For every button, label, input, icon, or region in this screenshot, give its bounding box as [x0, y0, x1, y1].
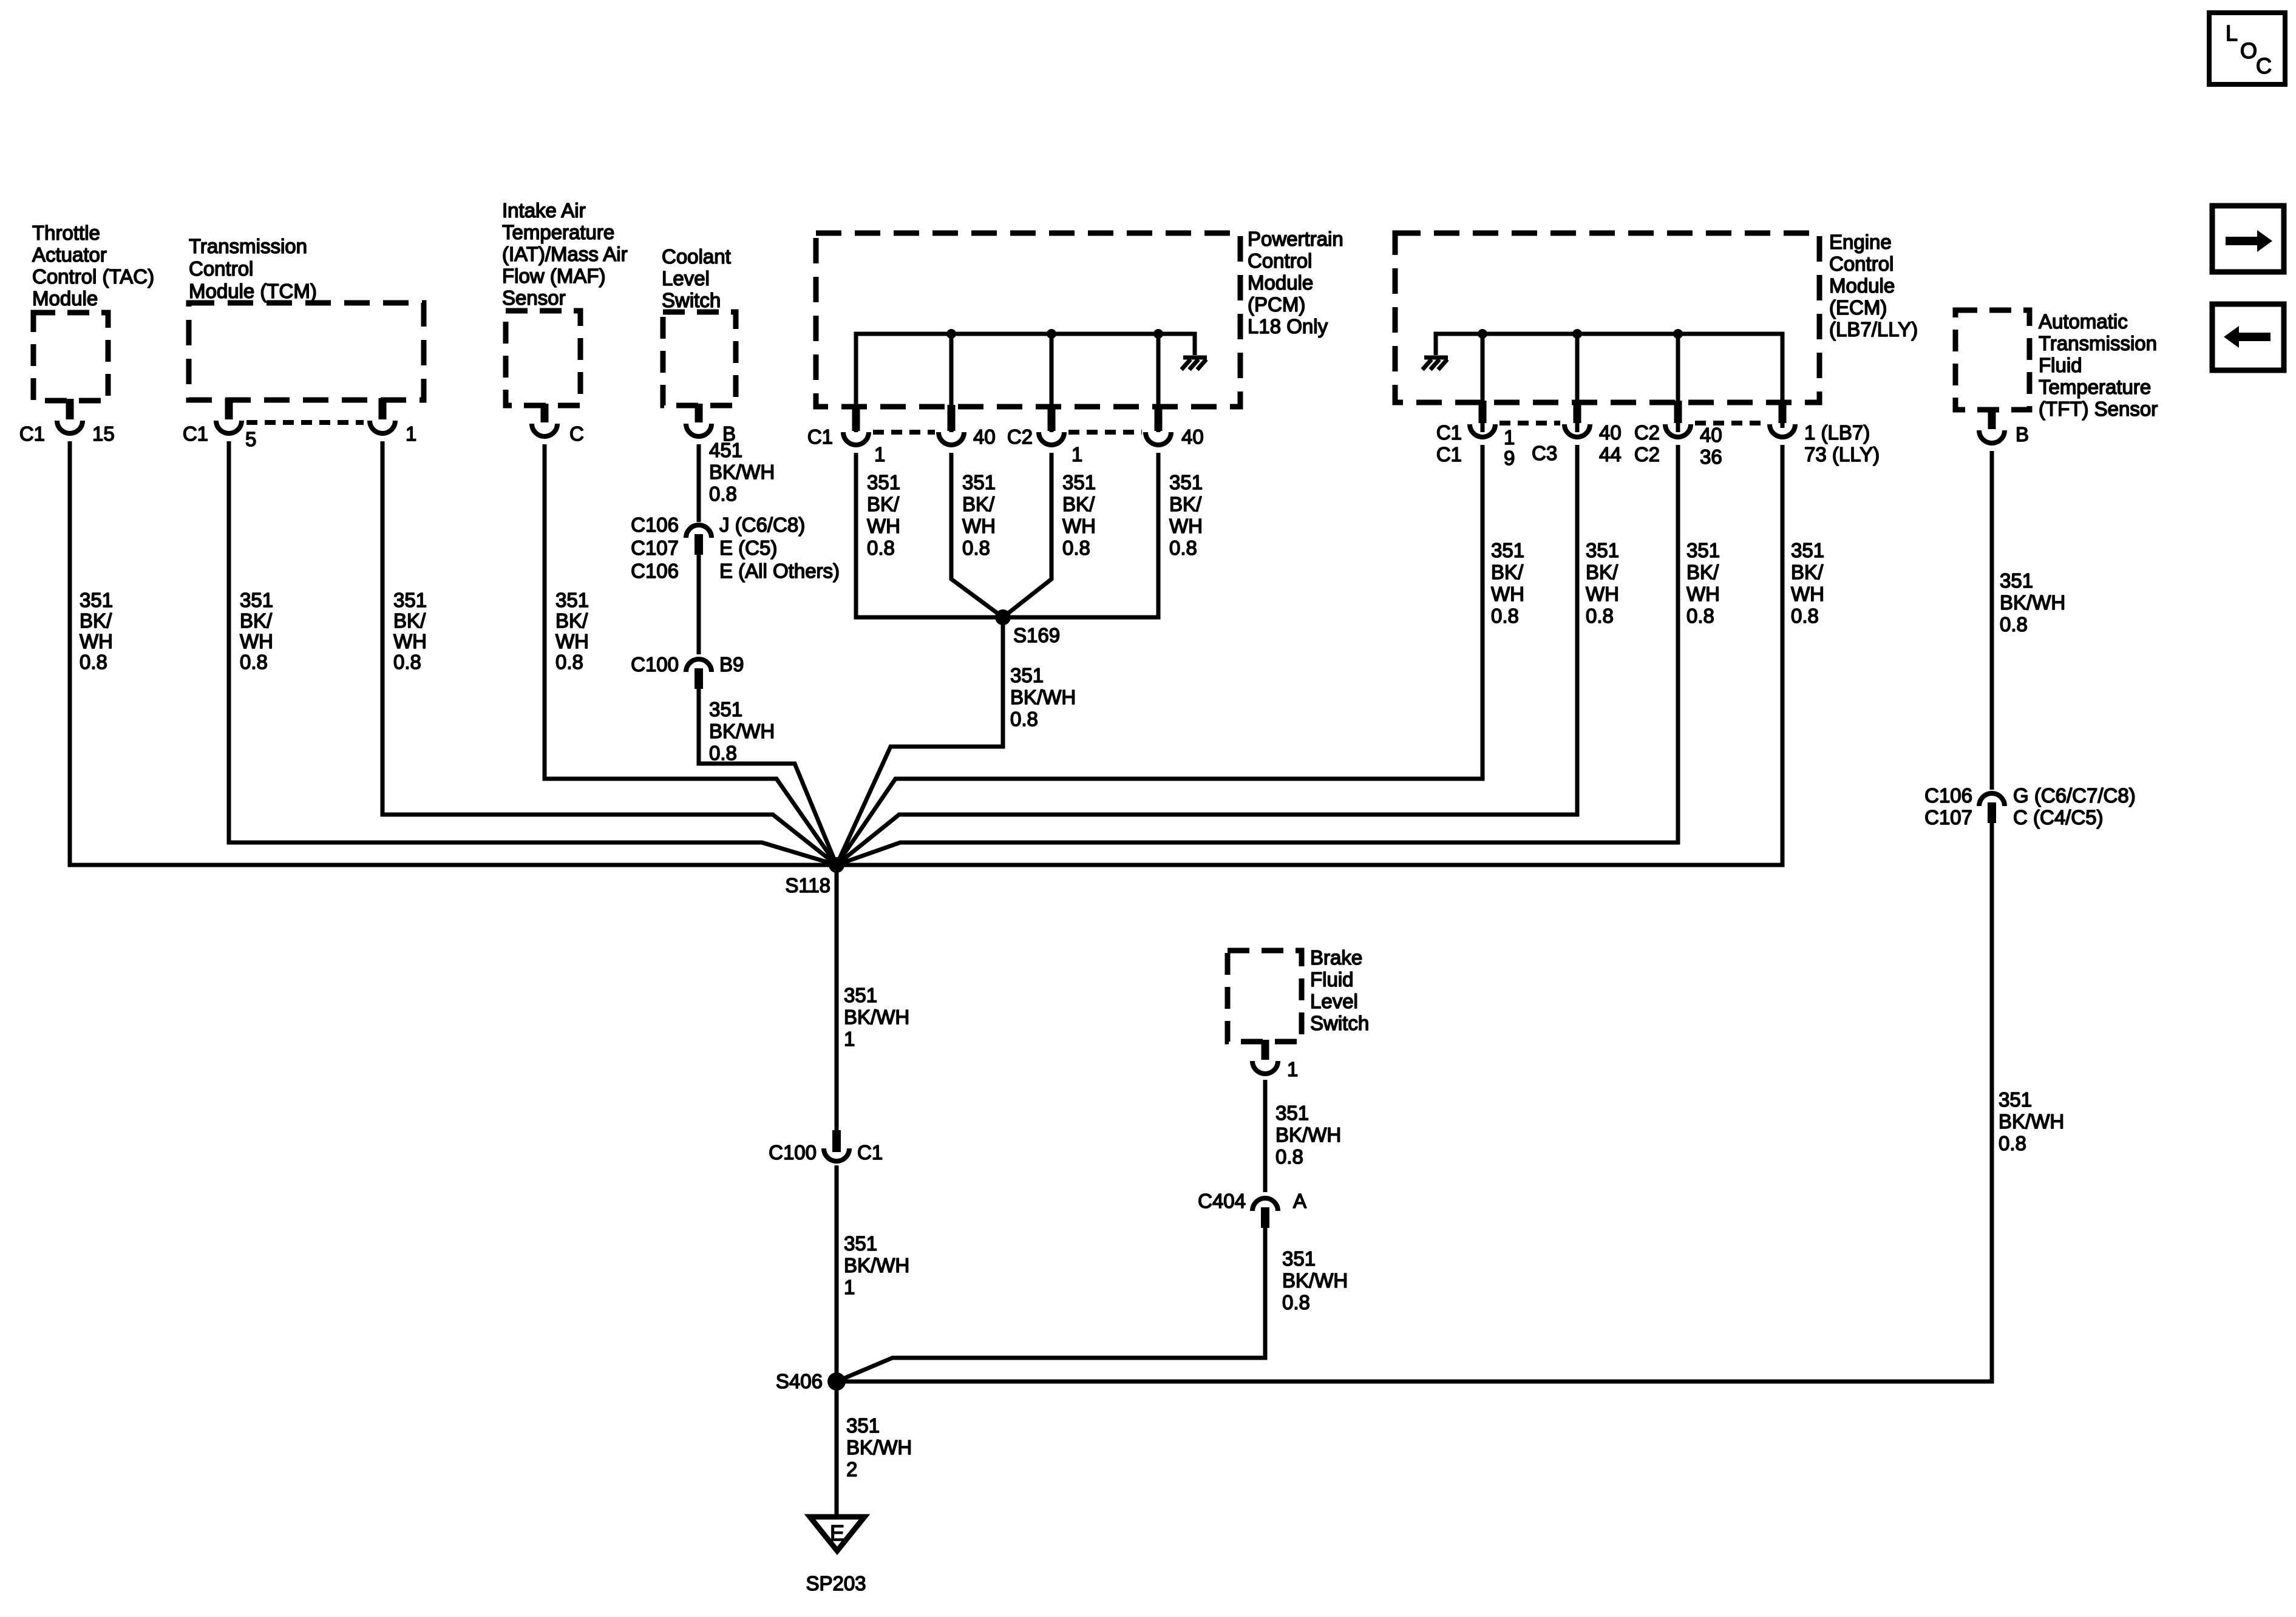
PCM pin C1-1 connector [807, 405, 886, 466]
wire ECM pin 40/44 to S118 [837, 445, 1577, 865]
wire label 351 BK/WH 0.8 (TCM pin 1) [393, 589, 427, 673]
svg-text:Control: Control [1829, 253, 1894, 275]
svg-text:5: 5 [245, 428, 256, 450]
svg-text:Flow (MAF): Flow (MAF) [502, 265, 605, 287]
svg-text:Control: Control [1248, 249, 1312, 272]
svg-text:351: 351 [1010, 664, 1044, 686]
Coolant pin B connector [686, 404, 736, 445]
wire TAC pin 15 to S118 [70, 441, 837, 865]
svg-text:40: 40 [1181, 425, 1204, 448]
ground SP203 (E triangle) [806, 1517, 866, 1595]
PCM internal wire pin 40 C2 [1156, 334, 1161, 432]
svg-text:BK/: BK/ [1169, 493, 1202, 515]
wire label 351 BK/WH 1 (S118 to C100) [844, 984, 909, 1050]
wire PCM pin C2-40 to S169 [1003, 453, 1158, 617]
ECM pin 1(LB7)/73(LLY) connector [1770, 401, 1880, 466]
svg-text:Coolant: Coolant [662, 245, 731, 268]
svg-text:0.8: 0.8 [1686, 605, 1714, 627]
svg-text:C2: C2 [1634, 443, 1660, 466]
svg-text:351: 351 [555, 589, 589, 611]
ECM internal wire pin C1 [1481, 334, 1485, 432]
junction dot ECM bus 2 [1572, 329, 1582, 339]
chassis ground inside ECM [1422, 358, 1448, 370]
svg-text:Powertrain: Powertrain [1248, 228, 1343, 250]
PCM label [1248, 228, 1343, 337]
wire S169 to S118 [837, 617, 1003, 865]
svg-text:C100: C100 [769, 1141, 817, 1164]
svg-text:36: 36 [1700, 446, 1722, 468]
Transmission Control Module (TCM) box [189, 235, 424, 400]
svg-text:L18 Only: L18 Only [1248, 315, 1328, 337]
svg-text:1: 1 [874, 443, 885, 466]
wire IAT/MAF pin C to S118 [545, 444, 837, 865]
svg-text:1: 1 [406, 422, 416, 445]
svg-text:0.8: 0.8 [1169, 537, 1197, 559]
svg-text:C2: C2 [1634, 421, 1660, 444]
ECM pin 40/44 connector [1564, 401, 1622, 466]
svg-text:C1: C1 [1436, 421, 1462, 444]
svg-text:BK/WH: BK/WH [709, 720, 775, 742]
svg-text:Transmission: Transmission [2039, 332, 2157, 354]
svg-text:0.8: 0.8 [1491, 605, 1519, 627]
Powertrain Control Module (PCM) box [816, 233, 1240, 407]
svg-text:15: 15 [92, 422, 115, 445]
svg-text:Control: Control [189, 257, 253, 280]
ECM internal wire pin 40/44 [1575, 334, 1580, 432]
svg-text:WH: WH [1586, 583, 1619, 605]
svg-text:0.8: 0.8 [2000, 613, 2028, 636]
svg-text:351: 351 [867, 471, 900, 493]
svg-text:BK/: BK/ [1686, 561, 1719, 583]
svg-text:C1: C1 [19, 422, 45, 445]
wire label 351 BK/WH 0.8 (ECM 40/44) [1586, 539, 1619, 627]
svg-text:351: 351 [393, 589, 427, 611]
svg-text:C1: C1 [183, 422, 208, 445]
wire ECM pin C1 to S118 [837, 445, 1483, 865]
svg-text:Fluid: Fluid [2039, 354, 2082, 376]
svg-text:BK/: BK/ [867, 493, 900, 515]
wire label 351 BK/WH 0.8 (brake lower) [1282, 1247, 1348, 1314]
svg-text:351: 351 [2000, 569, 2033, 592]
Intake Air Temperature (IAT)/Mass Air Flow (MAF) Sensor box [502, 199, 628, 405]
svg-text:C100: C100 [631, 653, 679, 676]
connector C404 A [1198, 1190, 1306, 1228]
svg-text:Temperature: Temperature [502, 221, 614, 243]
svg-text:351: 351 [1282, 1247, 1316, 1270]
svg-text:0.8: 0.8 [393, 651, 421, 673]
svg-text:J (C6/C8): J (C6/C8) [719, 514, 805, 536]
svg-text:0.8: 0.8 [709, 483, 737, 505]
junction dot PCM bus 2 [1047, 329, 1056, 339]
svg-text:1 (LB7): 1 (LB7) [1804, 421, 1870, 444]
svg-text:0.8: 0.8 [1275, 1145, 1303, 1168]
dashed connector link PCM C1 [873, 430, 935, 435]
svg-text:BK/: BK/ [962, 493, 995, 515]
svg-text:C106: C106 [631, 514, 679, 536]
svg-text:Sensor: Sensor [502, 286, 566, 309]
wire C404 A to S406 [837, 1227, 1265, 1381]
svg-text:351: 351 [1062, 471, 1096, 493]
svg-text:BK/: BK/ [555, 609, 588, 632]
svg-text:351: 351 [844, 984, 877, 1006]
svg-text:BK/: BK/ [80, 609, 112, 632]
splice S118 [785, 857, 844, 897]
TFT label [2039, 310, 2158, 420]
svg-text:0.8: 0.8 [1010, 708, 1038, 730]
svg-text:A: A [1293, 1190, 1306, 1212]
dashed connector link PCM C2 [1068, 430, 1142, 435]
svg-text:BK/: BK/ [1586, 561, 1618, 583]
svg-text:40: 40 [973, 425, 996, 448]
PCM internal wire pin 1 C2 [1050, 334, 1054, 432]
svg-text:Level: Level [662, 267, 710, 290]
wire PCM pin C2-1 to S169 [1003, 453, 1051, 617]
svg-text:0.8: 0.8 [80, 651, 107, 673]
svg-text:1: 1 [844, 1276, 855, 1298]
svg-text:0.8: 0.8 [1999, 1132, 2026, 1154]
svg-text:Intake Air: Intake Air [502, 199, 586, 222]
svg-text:351: 351 [962, 471, 996, 493]
svg-text:0.8: 0.8 [240, 651, 268, 673]
svg-text:C: C [569, 422, 584, 445]
connector C100 C1 [769, 1130, 883, 1164]
svg-text:0.8: 0.8 [1791, 605, 1819, 627]
junction dot PCM bus 1 [946, 329, 956, 339]
svg-text:BK/WH: BK/WH [709, 461, 775, 483]
wire label 351 BK/WH 0.8 (ECM C1) [1491, 539, 1524, 627]
svg-text:451: 451 [709, 439, 742, 461]
svg-text:351: 351 [80, 589, 113, 611]
svg-text:2: 2 [846, 1458, 857, 1480]
svg-text:9: 9 [1504, 447, 1515, 469]
svg-text:S118: S118 [785, 874, 830, 897]
right arrow indicator [2212, 206, 2284, 272]
wire PCM pin C1-40 to S169 [951, 453, 1003, 617]
wire label 351 BK/WH 0.8 (TFT upper) [2000, 569, 2065, 636]
svg-text:0.8: 0.8 [867, 537, 895, 559]
svg-text:(TFT) Sensor: (TFT) Sensor [2039, 398, 2158, 420]
svg-text:1: 1 [1072, 443, 1082, 466]
wire label 351 BK/WH 0.8 (brake upper) [1275, 1102, 1341, 1168]
svg-text:WH: WH [867, 515, 900, 537]
svg-text:351: 351 [1275, 1102, 1309, 1124]
Throttle Actuator Control (TAC) Module box [32, 222, 154, 401]
wire C106 to C100 [697, 555, 701, 654]
svg-text:SP203: SP203 [806, 1572, 866, 1595]
dashed connector link ECM C2 [1695, 421, 1765, 425]
svg-text:BK/: BK/ [393, 609, 426, 632]
ECM internal ground bus wire [1436, 334, 1782, 428]
svg-text:Module (TCM): Module (TCM) [189, 280, 317, 302]
svg-text:C1: C1 [807, 425, 833, 448]
svg-text:Throttle: Throttle [32, 222, 100, 244]
svg-text:Transmission: Transmission [189, 235, 307, 257]
svg-text:BK/WH: BK/WH [846, 1436, 912, 1459]
svg-text:C106: C106 [631, 560, 679, 582]
svg-text:Engine: Engine [1829, 231, 1892, 253]
svg-text:BK/WH: BK/WH [1999, 1110, 2064, 1133]
svg-text:BK/WH: BK/WH [2000, 591, 2065, 614]
TCM pin C1-5 connector [183, 398, 257, 450]
ECM label [1829, 231, 1918, 341]
svg-text:BK/WH: BK/WH [844, 1254, 909, 1276]
svg-text:Automatic: Automatic [2039, 310, 2128, 333]
svg-text:73 (LLY): 73 (LLY) [1804, 443, 1880, 466]
svg-text:0.8: 0.8 [962, 537, 990, 559]
TFT pin B connector [1979, 408, 2029, 446]
svg-text:(ECM): (ECM) [1829, 296, 1887, 319]
svg-text:G (C6/C7/C8): G (C6/C7/C8) [2013, 784, 2136, 807]
svg-text:E (All Others): E (All Others) [719, 560, 840, 582]
svg-text:351: 351 [844, 1232, 877, 1255]
svg-text:BK/: BK/ [240, 609, 273, 632]
connector C106/C107 (G / C) [1924, 784, 2136, 829]
connector C100 B9 [631, 653, 744, 689]
svg-text:O: O [2240, 38, 2257, 63]
svg-text:BK/: BK/ [1062, 493, 1095, 515]
wire S406 to SP203 [835, 1381, 839, 1515]
svg-text:44: 44 [1599, 443, 1622, 466]
svg-text:0.8: 0.8 [1586, 605, 1614, 627]
TAC pin C1-15 connector [19, 399, 115, 445]
svg-text:WH: WH [962, 515, 996, 537]
wire S118 to C100 [835, 865, 839, 1130]
svg-text:351: 351 [1686, 539, 1720, 561]
svg-text:L: L [2226, 21, 2238, 46]
svg-text:WH: WH [1791, 583, 1824, 605]
svg-text:0.8: 0.8 [1282, 1291, 1310, 1314]
svg-text:WH: WH [1491, 583, 1524, 605]
svg-text:WH: WH [1062, 515, 1096, 537]
svg-text:1: 1 [844, 1028, 855, 1050]
svg-text:C106: C106 [1924, 784, 1972, 807]
svg-text:0.8: 0.8 [709, 742, 737, 764]
chassis ground inside PCM [1181, 358, 1207, 370]
svg-text:WH: WH [1686, 583, 1720, 605]
junction dot ECM bus 1 [1478, 329, 1487, 339]
PCM internal wire pin 40 C1 [949, 334, 954, 432]
wire label 351 BK/WH 0.8 (ECM 40/36) [1686, 539, 1720, 627]
IAT/MAF pin C connector [532, 404, 584, 445]
Brake Fluid Level Switch label [1310, 946, 1369, 1034]
dashed connector link ECM C1 [1500, 421, 1560, 425]
wire label 451 BK/WH 0.8 [709, 439, 775, 505]
wire brake pin 1 to C404 [1263, 1080, 1268, 1192]
svg-text:Module: Module [32, 287, 98, 310]
PCM pin C2-40 connector [1146, 405, 1204, 448]
svg-text:351: 351 [1491, 539, 1524, 561]
wire TCM pin 5 to S118 [229, 441, 837, 865]
svg-text:C (C4/C5): C (C4/C5) [2013, 806, 2104, 829]
svg-text:Fluid: Fluid [1310, 968, 1354, 991]
ECM pin C1-1/9 connector [1436, 401, 1557, 469]
svg-text:(LB7/LLY): (LB7/LLY) [1829, 318, 1918, 341]
svg-text:BK/WH: BK/WH [1275, 1124, 1341, 1146]
Brake Fluid Level Switch box [1228, 951, 1302, 1042]
svg-text:Switch: Switch [662, 289, 721, 311]
svg-text:S406: S406 [776, 1370, 823, 1392]
wire label 351 BK/WH 0.8 (S169 to S118) [1010, 664, 1076, 730]
svg-text:Level: Level [1310, 990, 1358, 1012]
PCM pin C2-1 connector [1007, 405, 1083, 466]
svg-text:BK/WH: BK/WH [1010, 686, 1076, 708]
svg-text:(IAT)/Mass Air: (IAT)/Mass Air [502, 243, 628, 265]
svg-text:BK/: BK/ [1491, 561, 1524, 583]
ECM pin C2 40/36 connector [1634, 401, 1722, 468]
wire label 351 BK/WH 0.8 (PCM C2-1) [1062, 471, 1096, 559]
svg-text:1: 1 [1504, 426, 1515, 449]
wire coolant pin B to C106 [697, 444, 701, 522]
svg-text:C2: C2 [1007, 425, 1033, 448]
svg-text:C3: C3 [1532, 442, 1557, 464]
svg-text:40: 40 [1700, 424, 1722, 446]
svg-text:Control (TAC): Control (TAC) [32, 265, 154, 288]
svg-text:Temperature: Temperature [2039, 376, 2151, 398]
ECM internal wire pin 40/36 [1676, 334, 1680, 432]
wire C106 G to S406 [837, 823, 1992, 1381]
svg-text:B9: B9 [719, 653, 744, 676]
svg-text:WH: WH [240, 630, 273, 653]
svg-text:Brake: Brake [1310, 946, 1362, 969]
svg-text:0.8: 0.8 [555, 651, 583, 673]
svg-text:C1: C1 [857, 1141, 883, 1164]
splice S406 [776, 1370, 846, 1392]
wire ECM pin 1/73 to S118 [837, 445, 1782, 865]
svg-text:WH: WH [555, 630, 589, 653]
svg-text:C1: C1 [1436, 443, 1462, 466]
svg-text:351: 351 [1586, 539, 1619, 561]
svg-text:351: 351 [1169, 471, 1203, 493]
wire label 351 BK/WH 0.8 (PCM C1-40) [962, 471, 996, 559]
svg-text:Module: Module [1248, 271, 1313, 294]
wire C100 C1 to S406 [835, 1165, 839, 1381]
brake switch pin 1 connector [1252, 1040, 1298, 1080]
left arrow indicator [2212, 304, 2284, 370]
svg-text:351: 351 [846, 1414, 880, 1437]
svg-text:1: 1 [1287, 1058, 1298, 1080]
junction dot PCM bus 3 [1153, 329, 1163, 339]
svg-text:WH: WH [1169, 515, 1203, 537]
splice S169 [995, 609, 1060, 646]
wire label 351 BK/WH 0.8 (TAC) [80, 589, 113, 673]
PCM pin C1-40 connector [939, 405, 996, 448]
svg-text:0.8: 0.8 [1062, 537, 1090, 559]
wire ECM pin 40/36 to S118 [837, 445, 1678, 865]
wire label 351 BK/WH 1 (C100 to S406) [844, 1232, 909, 1298]
svg-text:40: 40 [1599, 421, 1622, 444]
wire label 351 BK/WH 0.8 (ECM 1/73) [1791, 539, 1824, 627]
wire label 351 BK/WH 0.8 (TCM pin 5) [240, 589, 273, 673]
PCM internal ground bus wire [856, 334, 1195, 432]
svg-text:BK/WH: BK/WH [844, 1006, 909, 1028]
svg-text:WH: WH [393, 630, 427, 653]
svg-text:351: 351 [1791, 539, 1824, 561]
svg-text:WH: WH [80, 630, 113, 653]
LOC logo box [2209, 13, 2285, 84]
connector C106/C107 (J / E) [631, 514, 840, 582]
svg-text:Switch: Switch [1310, 1012, 1369, 1034]
junction dot ECM bus 3 [1673, 329, 1683, 339]
svg-text:351: 351 [1999, 1088, 2032, 1111]
svg-text:BK/WH: BK/WH [1282, 1269, 1348, 1292]
svg-text:E (C5): E (C5) [719, 537, 777, 559]
wire label 351 BK/WH 0.8 (PCM C1-1) [867, 471, 900, 559]
svg-text:C404: C404 [1198, 1190, 1246, 1212]
wire label 351 BK/WH 0.8 (PCM C2-40) [1169, 471, 1203, 559]
svg-text:C107: C107 [631, 537, 679, 559]
wire label 351 BK/WH 0.8 (IAT/MAF) [555, 589, 589, 673]
svg-text:E: E [830, 1520, 844, 1545]
TCM pin 1 connector [370, 398, 416, 445]
Automatic Transmission Fluid Temperature (TFT) Sensor box [1955, 310, 2029, 410]
svg-text:Actuator: Actuator [32, 243, 107, 266]
Coolant Level Switch box [662, 245, 736, 405]
svg-text:351: 351 [240, 589, 273, 611]
wire PCM pin C1-1 to S169 [856, 453, 1003, 617]
wire label 351 BK/WH 0.8 (TFT lower) [1999, 1088, 2064, 1154]
svg-text:Module: Module [1829, 274, 1895, 297]
wire label 351 BK/WH 2 [846, 1414, 912, 1480]
dashed connector link TCM C1 [246, 420, 364, 425]
svg-text:351: 351 [709, 698, 742, 720]
svg-text:C: C [2256, 53, 2272, 78]
svg-text:B: B [2016, 423, 2029, 446]
wire TFT pin B to C106 [1990, 451, 1994, 790]
svg-text:(PCM): (PCM) [1248, 293, 1305, 316]
Engine Control Module (ECM) box [1395, 233, 1819, 402]
svg-text:C107: C107 [1924, 806, 1972, 829]
svg-text:BK/: BK/ [1791, 561, 1824, 583]
svg-text:S169: S169 [1013, 624, 1060, 646]
wire label 351 BK/WH 0.8 (coolant to S118) [709, 698, 775, 764]
wire TCM pin 1 to S118 [382, 441, 837, 865]
wire C100 B9 to S118 [699, 688, 837, 865]
